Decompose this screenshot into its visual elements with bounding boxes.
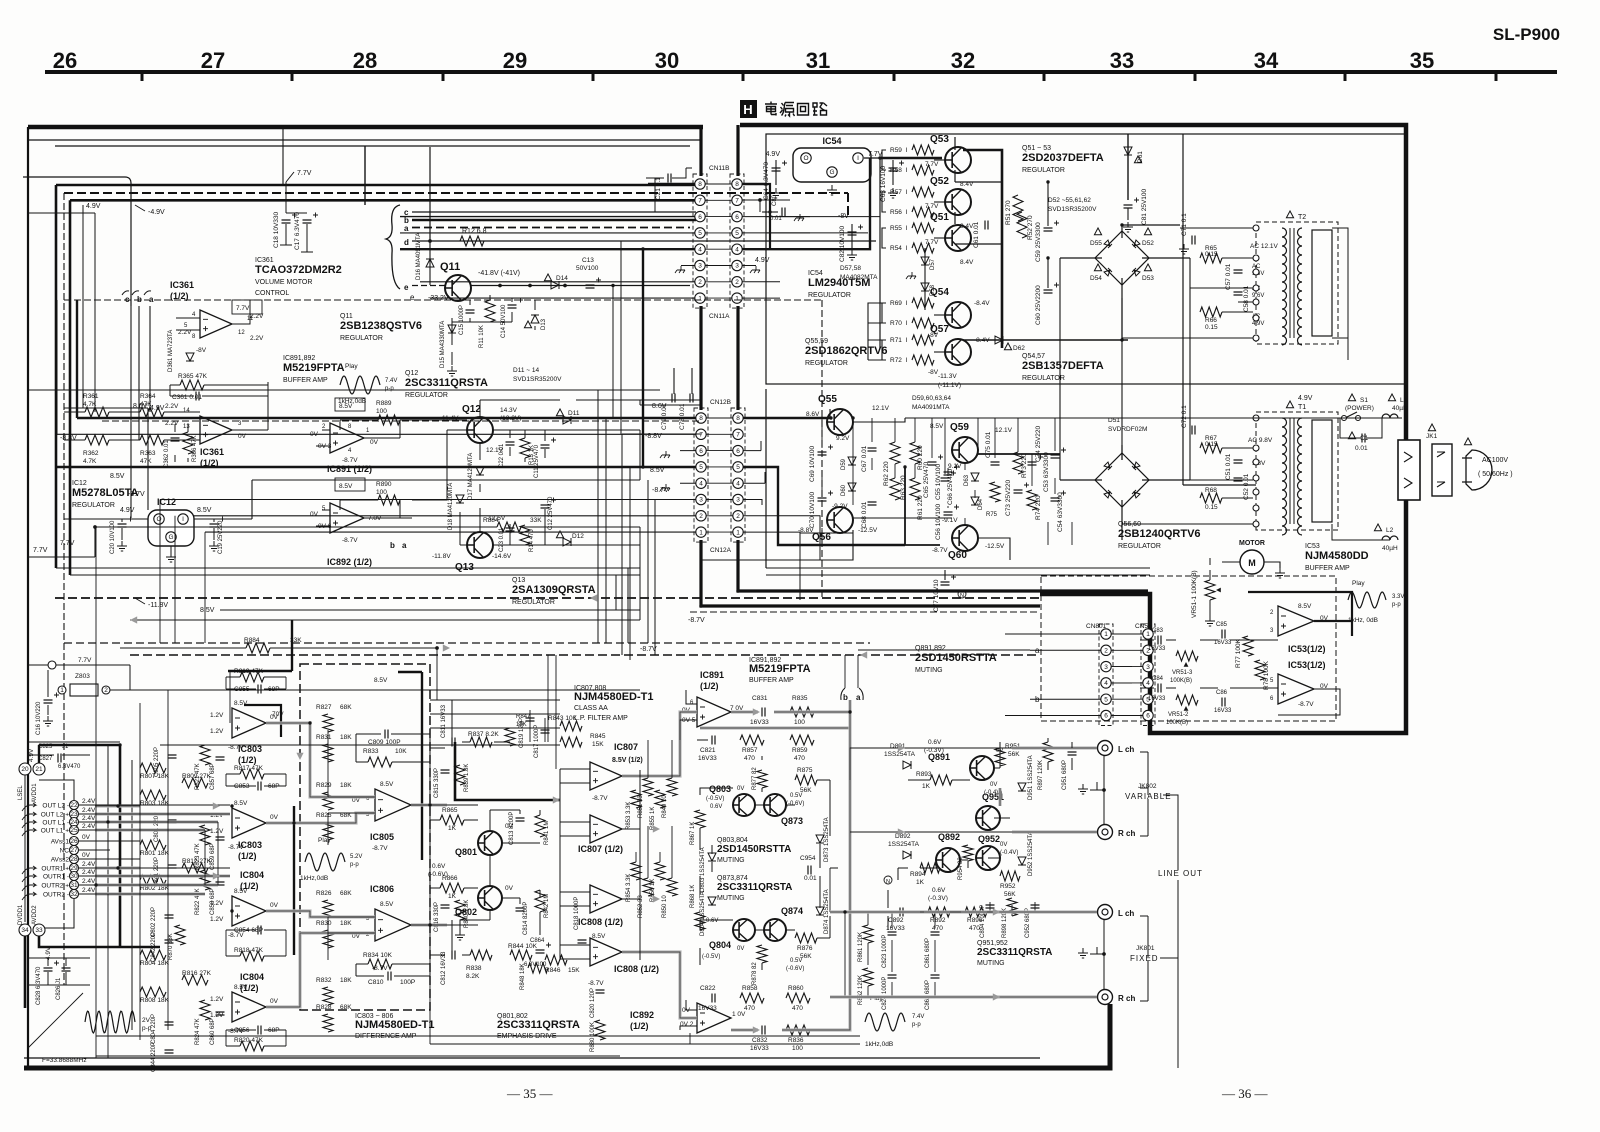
junction dot 17 [903,465,906,468]
wire Q52 base [882,192,886,212]
svg-text:18K: 18K [340,920,352,927]
signal path pins to ladder6 [95,874,230,877]
resistor R843 [560,721,582,731]
wire 4.9V to IC12 [64,408,148,510]
resistor R77 [1243,636,1253,656]
wire T2 secondary [1332,228,1348,360]
svg-text:C814 8200P: C814 8200P [523,902,529,935]
capacitor C85 [1222,630,1225,639]
ruler line [45,70,1557,74]
wire main box top edge left section [28,125,703,130]
wire CN12 pin3 row [160,499,696,501]
svg-text:16V33: 16V33 [698,755,717,762]
svg-text:C72 0.1: C72 0.1 [1181,405,1188,428]
svg-text:-4.9V: -4.9V [148,209,165,216]
svg-text:a: a [856,693,861,702]
wire T1 secondary to switch [1332,418,1390,540]
svg-text:-11.8V: -11.8V [148,602,168,609]
svg-text:IC54: IC54 [808,270,823,277]
svg-text:8: 8 [699,415,703,422]
svg-text:4: 4 [1104,680,1108,687]
warn L1 [1388,394,1395,401]
svg-text:C15 1000P: C15 1000P [459,305,465,335]
bridge rectifier D51 [1095,453,1149,507]
svg-text:4.9V: 4.9V [150,405,165,412]
svg-text:26: 26 [70,838,78,845]
wire CN12 pin4 gnd [680,472,765,483]
svg-text:D952 1SS254TA: D952 1SS254TA [1028,831,1034,876]
svg-text:R822 47K: R822 47K [195,888,201,915]
connector CN11 pin 5 right [732,228,742,238]
wire Q12 Q13 nets [412,285,620,545]
svg-text:1kHz,0dB: 1kHz,0dB [300,875,328,882]
resistor R835 [790,707,814,717]
svg-text:AVDD2: AVDD2 [32,905,38,925]
wire Q56 Q60 rows [700,518,1010,560]
resistor R71 [912,335,934,345]
resistor R855 [655,790,665,808]
svg-text:68P: 68P [268,783,280,790]
svg-text:2: 2 [735,279,739,286]
svg-text:R850 10: R850 10 [662,895,668,918]
junction dot 29 [848,710,851,713]
resistor R837 [470,737,492,747]
wire bus x132 [131,760,133,1030]
CN11 p3 ground right [750,266,760,273]
svg-text:C71 0.1: C71 0.1 [1181,213,1188,236]
connector CN12 pin 1 link [706,531,733,533]
capacitor C71 [1192,236,1195,245]
wire vertical x613 [612,286,614,419]
svg-text:(-0.5V): (-0.5V) [706,796,724,802]
wire Q52 base2 [934,201,945,203]
dashed rail y597 [55,597,1040,599]
connector CN12 pin 5 right [733,462,743,472]
transformer T2 [1256,222,1338,344]
wire CN12A left col down thick [701,540,1040,606]
svg-text:-11.8V: -11.8V [432,553,451,560]
svg-text:(-0.5V): (-0.5V) [702,954,720,960]
resistor R829 [323,792,333,810]
svg-text:3: 3 [1146,664,1150,671]
svg-text:BUFFER AMP: BUFFER AMP [1305,565,1350,572]
resistor R361 [85,407,109,417]
wire bridge D51 conn [1060,445,1190,540]
signal path L2 core [266,813,375,823]
resistor R838 [470,950,492,960]
svg-text:0V: 0V [310,511,319,518]
junction dot 6 [93,525,96,528]
wire bottom thick border [24,1004,1110,1068]
pin 29 [70,864,79,873]
wire ic891 inputs [680,690,708,1030]
wire R36x rows [64,382,268,462]
op-amp IC53 first half [1278,606,1314,636]
capacitor C20 [118,524,127,527]
resistor R894 [920,863,940,873]
resistor R816 [182,975,208,985]
svg-text:T1: T1 [1298,404,1306,411]
capacitor C64 [772,168,781,171]
svg-text:-8.7V: -8.7V [652,487,669,494]
transistor Q803 [733,794,755,816]
wire Q59 bus thick [905,454,1060,545]
resistor R52 [1017,212,1027,238]
resistor R808 [140,987,166,997]
svg-text:VR51-3: VR51-3 [1172,670,1193,676]
wire row a dashed [412,227,690,229]
signal arrow 13 [130,616,137,623]
wire CN801 p1 row [1005,633,1101,635]
svg-text:R365 47K: R365 47K [178,373,208,380]
svg-text:26: 26 [53,48,77,73]
connector CN801 pin 3 link [1111,666,1143,668]
svg-text:1: 1 [735,295,739,302]
signal path pins to ladder2 core [95,813,230,815]
wire CN11 pin4 row thick [400,158,870,249]
op-amp IC361 first half [200,310,232,338]
warn JK1 [1428,424,1435,431]
svg-text:2.4V: 2.4V [82,798,96,805]
T2 tap 5 [1253,299,1259,305]
svg-text:R897 120K: R897 120K [1038,760,1044,790]
transistor Q951 [976,806,1000,830]
svg-text:Q51: Q51 [930,212,949,223]
signal path y912 core [830,911,1097,913]
svg-text:R848 18K: R848 18K [520,963,526,990]
wire CN11 p7 cap [759,200,761,212]
svg-text:8.5V: 8.5V [592,933,606,940]
wire D16 vertical [429,241,431,285]
op-amp IC803 b [232,808,266,838]
svg-text:7.7V: 7.7V [236,305,250,312]
wire Q54 base [882,303,886,323]
svg-text:b: b [390,541,395,550]
svg-text:AVss2: AVss2 [51,857,70,864]
signal arrow 3 [296,753,303,760]
resistor R62 [890,442,900,464]
resistor R890 [378,495,400,505]
svg-text:C56 10V100: C56 10V100 [935,503,942,540]
warn D61 [1134,156,1141,163]
wire lower power box left edge [765,389,767,568]
svg-text:IC808 (1/2): IC808 (1/2) [578,917,623,927]
svg-text:470: 470 [744,755,755,762]
wire regulator inner box [766,134,1406,384]
resistor R834 [368,959,392,969]
svg-text:SVD1SR35200V: SVD1SR35200V [513,376,562,383]
svg-text:3: 3 [698,263,702,270]
diode D12 [563,538,571,546]
svg-text:27: 27 [70,847,78,854]
C82 ground [847,250,857,260]
pot VR51-1 body [1205,580,1215,600]
svg-text:5: 5 [698,230,702,237]
pin 31 [70,881,79,890]
svg-text:CN801: CN801 [1086,623,1107,630]
svg-text:IC892: IC892 [630,1010,654,1020]
svg-text:C70 10V100: C70 10V100 [809,491,816,528]
diode D60 [848,483,856,491]
svg-text:1.2V: 1.2V [210,712,224,719]
svg-text:R831: R831 [316,734,332,741]
C63 ground [888,188,898,198]
wire 8.5V from IC12 [252,480,640,519]
svg-text:0V: 0V [238,433,247,440]
wire dashed rail y193 [64,193,848,215]
warn D62 [1004,343,1011,350]
wire CN801 p2 row [1030,649,1101,651]
wire IC805 out to Q801 [411,805,478,925]
svg-text:0V: 0V [505,823,514,830]
svg-text:1.2V: 1.2V [210,1012,224,1019]
svg-text:1.2V: 1.2V [210,916,224,923]
svg-text:S1: S1 [1360,397,1368,404]
svg-text:L1: L1 [1400,397,1408,404]
svg-text:4: 4 [1146,680,1150,687]
resistor R363 [140,435,164,445]
resistor R63 [890,478,900,500]
svg-text:5: 5 [699,464,703,471]
wire C78 up [691,368,693,394]
svg-text:SVDRDF02M: SVDRDF02M [1108,426,1147,433]
wire C59 [1047,182,1049,226]
warn T2 [1286,211,1293,218]
rail 7.7V left [28,527,95,557]
svg-text:2.2V: 2.2V [250,335,264,342]
junction dot 22 [829,416,832,419]
svg-text:C862 680P: C862 680P [925,980,931,1010]
signal arrow 5 [653,825,660,832]
svg-text:(1/2): (1/2) [700,681,719,691]
leader -11.8V [135,598,145,604]
svg-text:-11.3V: -11.3V [938,373,957,380]
svg-text:D59,60,63,64: D59,60,63,64 [912,395,951,402]
capacitor C59 [1044,228,1053,231]
capacitor C19 [210,524,219,527]
svg-text:IC53(1/2): IC53(1/2) [1288,644,1326,654]
diode D18 [456,495,464,503]
op-amp IC53 second half [1278,674,1314,704]
resistor R364 [140,407,164,417]
transistor Q57 [945,339,971,365]
svg-text:Q11: Q11 [440,261,460,273]
svg-text:DVDD1: DVDD1 [18,904,24,925]
svg-text:(1/2): (1/2) [238,755,257,765]
wire ic807 inputs [560,769,590,959]
T1 tap 6 [1253,505,1259,511]
svg-text:R51 270: R51 270 [1005,200,1012,225]
resistor R858 [740,993,764,1003]
connector CN12 pin 6 link [706,450,733,452]
svg-text:4.7K: 4.7K [83,458,97,465]
connector CN801 pin 5 right [1143,694,1153,704]
resistor R14 [520,525,530,545]
pin 28 [70,855,79,864]
svg-text:16V33: 16V33 [1148,696,1166,702]
svg-text:2SD2037DEFTA: 2SD2037DEFTA [1022,152,1104,164]
resistor R826 [323,900,333,918]
connector CN12 pin 6 left [696,445,706,455]
svg-text:R892: R892 [930,917,946,924]
signal path y832 core [1012,831,1097,833]
junction dot 2 [498,284,501,287]
svg-text:6: 6 [698,214,702,221]
capacitor C894 [986,905,995,908]
wire Q54 base2 [934,314,945,316]
svg-text:8.5V: 8.5V [1298,603,1312,610]
svg-text:R880 100K: R880 100K [590,1022,596,1052]
connector CN11 pin 8 right [732,179,742,189]
svg-text:R854 3.3K: R854 3.3K [626,874,632,902]
svg-text:C13: C13 [582,257,594,264]
svg-text:O: O [803,155,808,162]
svg-text:Q53: Q53 [930,134,949,145]
T1 tap 3 [1253,459,1259,465]
svg-text:R54 I: R54 I [890,245,908,252]
junction dot 14 [1120,223,1123,226]
IC54 pin I [853,153,863,163]
resistor R13 [520,438,530,458]
svg-text:REGULATOR: REGULATOR [512,599,555,606]
svg-text:C841 220P: C841 220P [154,857,160,887]
wire Q54-57 left feed [868,303,882,360]
svg-text:R857: R857 [742,747,758,754]
capacitor C818 [578,940,587,943]
svg-text:a: a [404,224,409,233]
wire CN12 pin5 thick row [57,467,905,545]
svg-text:100: 100 [794,719,805,726]
arrow into OUT L2 + [30,812,36,816]
dashed rail y420 [102,420,700,422]
resistor R830 [323,930,333,948]
capacitor C15 [466,310,475,313]
svg-text:R845: R845 [590,733,606,740]
T2 tap 3 [1253,269,1259,275]
wire pin32 out [79,893,140,895]
capacitor C69 [818,452,827,455]
connector CN12 pin 2 right [733,511,743,521]
svg-text:0V: 0V [270,902,279,909]
wire x548 bundle down [548,655,556,769]
svg-text:R828: R828 [316,1004,332,1011]
svg-text:12.1V: 12.1V [872,405,890,412]
svg-text:Q952: Q952 [978,834,1000,844]
arrow into OUTR1 - [30,874,36,878]
resistor R852 [643,878,653,896]
svg-text:Q52: Q52 [930,176,949,187]
dashed rail y300 [64,299,822,301]
capacitor C13 h [586,285,595,288]
svg-text:CLASS AA: CLASS AA [574,705,608,712]
wire R884 row right [270,647,437,649]
svg-text:2: 2 [698,279,702,286]
junction dot 1 [428,239,431,242]
junction dot 26 [308,721,311,724]
waveform play top [340,376,380,394]
svg-text:1: 1 [698,295,702,302]
diode D804 [708,897,716,905]
svg-text:15K: 15K [592,741,604,748]
connector CN12 pin 4 right [733,478,743,488]
svg-text:1: 1 [699,529,703,536]
wire inner top line [28,139,700,141]
signal path L1 [266,723,375,797]
svg-text:CN11A: CN11A [709,313,730,320]
wire rail y575 [70,574,640,576]
connector CN12 pin 3 link [706,499,733,501]
op-amp IC803 a [232,708,266,738]
svg-text:C817 1000P: C817 1000P [534,725,540,758]
svg-text:D13: D13 [541,318,547,330]
resistor R57 [912,187,934,197]
svg-text:IC54: IC54 [822,136,841,146]
svg-text:8.6V: 8.6V [652,403,667,410]
svg-text:R884: R884 [483,517,499,524]
svg-text:LSEL: LSEL [18,785,24,800]
connector CN801 pin 6 link [1111,715,1143,717]
wire top area stubs [28,213,95,390]
junction dot 33 [116,804,119,807]
ruler tick 9 [1344,72,1347,81]
transistor Q11 [445,275,471,301]
svg-text:M5278L05TA: M5278L05TA [72,487,138,499]
diode D15 [448,325,456,333]
svg-text:29: 29 [503,48,527,73]
svg-text:R842 1M: R842 1M [544,894,550,918]
svg-text:C861 680P: C861 680P [925,938,931,968]
svg-text:0.01: 0.01 [804,875,817,882]
dashed rail y643 [64,642,870,644]
svg-text:0.6V: 0.6V [710,804,722,810]
svg-text:(-0.3V): (-0.3V) [928,895,948,902]
svg-text:100: 100 [376,408,387,415]
waveform play power [1348,592,1386,608]
resistor R853 [631,790,641,808]
signal path y997 [830,995,1097,998]
signal path pins to ladder6 core [95,875,230,877]
signal path out807 [622,712,697,776]
wire C18 C17 grounds [280,224,313,252]
capacitor C857 [216,757,225,760]
warn D53 [1144,264,1151,271]
svg-text:(-11.1V): (-11.1V) [938,382,961,389]
svg-text:(-0.6V): (-0.6V) [786,801,804,807]
wire Q801 nets [430,810,540,935]
wire C63 [892,160,894,185]
svg-text:8.5V: 8.5V [197,507,212,514]
svg-text:33: 33 [35,927,43,934]
resistor R807 [140,763,166,773]
svg-text:2.2V: 2.2V [250,313,264,320]
svg-text:Q12: Q12 [462,404,481,415]
svg-text:1.2V: 1.2V [210,728,224,735]
svg-text:8.5V: 8.5V [200,607,215,614]
capacitor C11 [541,445,550,448]
dashed box IC53 area [1041,576,1336,721]
wire bus y745 [160,744,560,746]
wire inner top line 2 [55,145,690,147]
capacitor C75 [991,462,1000,465]
wire pin33 bus thick [25,745,160,1008]
svg-text:Q12: Q12 [405,370,418,377]
Q801 gnd [455,930,465,940]
capacitor C14 [508,305,517,308]
svg-text:CONTROL: CONTROL [255,290,289,297]
signal path pins to ladder5 [95,866,140,869]
svg-text:REGULATOR: REGULATOR [1022,167,1065,174]
waveform crystal [85,1011,135,1033]
